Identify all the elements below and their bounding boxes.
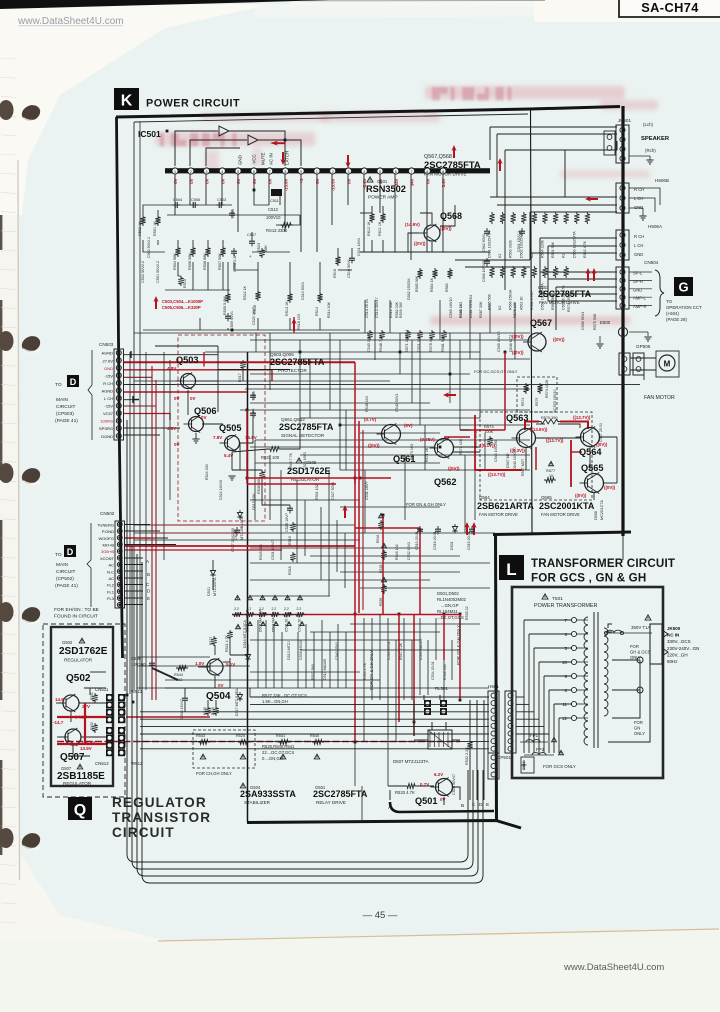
svg-text:R562 4.7K: R562 4.7K [583, 240, 587, 258]
svg-text:R507 56K: R507 56K [218, 253, 222, 270]
transistor Q561 [382, 425, 401, 444]
svg-text:R551: R551 [90, 692, 94, 700]
svg-text:R508 68K: R508 68K [203, 253, 207, 270]
svg-text:-14.7: -14.7 [53, 720, 64, 725]
resistor R565 [489, 266, 494, 278]
svg-text:330V...GCS: 330V...GCS [667, 639, 691, 644]
svg-text:R572 10K: R572 10K [459, 438, 463, 455]
svg-text:AGND: AGND [101, 388, 113, 393]
wire bottom loop wires [127, 760, 483, 883]
svg-text:2.2: 2.2 [284, 607, 289, 611]
node label regulator 2SD1762E [296, 458, 302, 463]
svg-text:R563 392K: R563 392K [509, 239, 513, 258]
svg-text:N.C: N.C [107, 569, 114, 574]
svg-text:((0.3V)): ((0.3V)) [510, 448, 525, 453]
resistor K2 [564, 212, 569, 224]
wire maroon stubs CN503 [124, 377, 156, 406]
svg-text:D501: D501 [450, 541, 454, 550]
svg-text:9: 9 [564, 674, 567, 679]
svg-text:CN503: CN503 [99, 342, 114, 347]
svg-text:MTZJ9B1ATA: MTZJ9B1ATA [240, 516, 244, 540]
svg-text:MO+B: MO+B [103, 543, 115, 548]
node IC501 pin 18 [440, 168, 446, 174]
svg-text:Q562: Q562 [434, 477, 456, 487]
svg-text:R552: R552 [90, 722, 94, 730]
node tap 6 [571, 631, 576, 636]
svg-text:Q505: Q505 [219, 423, 241, 433]
svg-text:R516: R516 [376, 535, 380, 543]
transistor Q504 [207, 659, 223, 675]
capacitor C509 [227, 313, 229, 316]
svg-text:CN504: CN504 [644, 260, 659, 265]
svg-text:R521 4.7K: R521 4.7K [225, 634, 229, 652]
svg-text:(PAGE 41): (PAGE 41) [55, 583, 78, 589]
svg-text:(PAGE 41): (PAGE 41) [55, 418, 78, 424]
svg-text:JK501: JK501 [618, 118, 631, 123]
svg-text:C533 20.01: C533 20.01 [387, 641, 391, 660]
svg-text:MAIN: MAIN [56, 397, 69, 403]
resistor R532 [285, 595, 290, 599]
resistor R5b [92, 723, 97, 733]
svg-text:C531 16V47: C531 16V47 [271, 540, 275, 560]
resistor R541 [278, 740, 290, 745]
node IC501 pin 12 [345, 168, 351, 174]
svg-text:-13.5V: -13.5V [331, 178, 336, 191]
svg-text:D504 MA165: D504 MA165 [419, 639, 423, 660]
svg-text:7.8V: 7.8V [213, 435, 222, 440]
svg-text:7: 7 [269, 170, 271, 174]
svg-text:D567 M?: D567 M? [506, 453, 510, 468]
svg-text:(I-504): (I-504) [666, 311, 679, 316]
svg-text:R575 56K: R575 56K [593, 313, 597, 330]
svg-text:R539: R539 [379, 598, 383, 606]
svg-text:JK500: JK500 [667, 626, 681, 631]
capacitor C507 [251, 238, 253, 241]
svg-text:C527 50V1: C527 50V1 [331, 482, 335, 500]
svg-text:H501: H501 [488, 684, 499, 689]
svg-text:SPSRG: SPSRG [99, 426, 113, 431]
capacitor C562 [486, 228, 488, 231]
resistor R523 [259, 248, 264, 258]
svg-text:C540 25V1: C540 25V1 [335, 642, 339, 660]
resistor K2 [500, 212, 505, 224]
wire motor leads [623, 358, 656, 560]
node junctions [126, 130, 625, 744]
svg-text:C510 20.01: C510 20.01 [415, 531, 419, 550]
svg-text:R505 5.6M: R505 5.6M [223, 296, 227, 315]
svg-text:2SC2785FTA: 2SC2785FTA [279, 422, 334, 432]
svg-text:AMP-L: AMP-L [633, 296, 646, 301]
svg-text:6: 6 [395, 170, 397, 174]
resistor R506 [190, 246, 195, 257]
node section label L [499, 555, 524, 580]
svg-text:CIRCUIT: CIRCUIT [56, 404, 76, 410]
svg-text:R540: R540 [310, 734, 319, 738]
resistor R512b [369, 212, 374, 223]
svg-text:RS13 330K: RS13 330K [266, 228, 288, 233]
svg-text:C535 20.01: C535 20.01 [285, 614, 289, 632]
svg-text:A562 1K: A562 1K [519, 296, 523, 310]
node red note [153, 296, 158, 309]
svg-text:FL1: FL1 [107, 589, 115, 594]
svg-text:0V: 0V [190, 396, 196, 401]
svg-text:R CH: R CH [103, 381, 113, 386]
svg-text:0V: 0V [218, 683, 224, 688]
transistor Q507 [65, 729, 81, 745]
node circle sec2 [637, 687, 643, 693]
svg-text:C505: C505 [231, 209, 235, 218]
svg-text:REGULATOR: REGULATOR [63, 781, 92, 786]
svg-text:AGND: AGND [101, 351, 113, 356]
svg-text:RSN3502: RSN3502 [366, 184, 406, 194]
svg-text:C503: C503 [217, 198, 226, 202]
node binder hole [0, 602, 14, 622]
dashed box ch gh only [193, 730, 255, 768]
capacitor C503 [216, 204, 219, 206]
resistor R518 [290, 552, 295, 562]
resistor small [367, 330, 372, 340]
node label stabilizer [240, 783, 246, 788]
svg-text:0V: 0V [268, 178, 273, 183]
svg-text:R506 56K: R506 56K [188, 253, 192, 270]
svg-text:C525: C525 [252, 391, 256, 400]
capacitor C510b [419, 526, 421, 529]
svg-text:E: E [486, 802, 489, 808]
wire main frame outline [116, 106, 631, 828]
transformer T501 core [593, 612, 595, 748]
svg-text:Q567: Q567 [530, 318, 552, 328]
svg-text:MTZJ20TA: MTZJ20TA [213, 577, 217, 596]
svg-text:R548 330: R548 330 [443, 664, 447, 680]
svg-text:E: E [622, 330, 625, 335]
svg-text:-VCC: -VCC [252, 154, 257, 165]
wire red thick fan drive [444, 415, 588, 487]
svg-text:E500: E500 [600, 320, 611, 325]
resistor small [405, 330, 410, 340]
svg-text:R535 22: R535 22 [465, 606, 469, 620]
svg-text:SP-R: SP-R [633, 279, 643, 284]
svg-text:R504 56K: R504 56K [173, 253, 177, 270]
svg-text:0V: 0V [189, 178, 194, 183]
node red arrow [280, 152, 285, 165]
svg-text:1: 1 [174, 170, 176, 174]
svg-text:((0V)): ((0V)) [512, 334, 524, 339]
resistor R527 [211, 636, 216, 646]
node red arrow [291, 318, 296, 331]
svg-text:6: 6 [564, 632, 567, 637]
wire q501 area [388, 695, 484, 805]
svg-text:((13.7V)): ((13.7V)) [488, 472, 506, 477]
svg-text:R570 390: R570 390 [541, 416, 557, 420]
resistor R507 [220, 246, 225, 257]
wire thick bottom bus [390, 802, 494, 812]
wire IC501 top loops [175, 131, 301, 166]
svg-text:((0V)): ((0V)) [368, 443, 380, 448]
capacitor C526 [289, 505, 291, 508]
svg-text:-15V: -15V [105, 373, 114, 378]
transistor Q564 [581, 428, 600, 447]
svg-text:22....DC,GT,GCS: 22....DC,GT,GCS [262, 750, 294, 755]
svg-text:C537 20.01: C537 20.01 [298, 614, 302, 632]
resistor R562 [585, 212, 590, 224]
resistor R583 [447, 268, 452, 279]
resistor A562 [521, 266, 526, 278]
wire dark red pair [152, 366, 363, 700]
capacitor C506 [190, 204, 193, 206]
node IC501 pin 2 [188, 168, 194, 174]
svg-text:GND: GND [238, 155, 243, 165]
svg-text:D513 MTZJ: D513 MTZJ [287, 641, 291, 660]
resistor R515 [335, 255, 340, 266]
svg-text:C542 50V1: C542 50V1 [395, 394, 399, 412]
resistor R533 [273, 595, 278, 599]
svg-text:R551 102: R551 102 [315, 484, 319, 500]
svg-text:RELAY DRIVE: RELAY DRIVE [316, 800, 346, 805]
svg-text:C538 16V47: C538 16V47 [180, 699, 184, 719]
ground [629, 331, 648, 333]
wire h501 feeds [140, 697, 489, 749]
svg-text:GND: GND [634, 252, 643, 257]
svg-text:FOR DC,GCS,GT ONLY: FOR DC,GCS,GT ONLY [474, 369, 518, 374]
svg-text:0V: 0V [346, 178, 351, 183]
svg-text:FOR GN & GH ONLY: FOR GN & GH ONLY [369, 650, 374, 690]
connector JK500 [650, 624, 662, 664]
svg-text:POWER AMP: POWER AMP [368, 195, 398, 201]
node red arrow [585, 268, 590, 281]
resistor R570 [539, 419, 560, 424]
svg-text:R530 560: R530 560 [257, 478, 261, 494]
svg-text:100RG: 100RG [100, 419, 113, 424]
svg-text:R524 330: R524 330 [205, 464, 209, 480]
svg-text:R546 102: R546 102 [395, 544, 399, 560]
svg-text:FOUND IN CIRCUIT: FOUND IN CIRCUIT [54, 614, 98, 620]
node IC501 pin 3 [203, 168, 209, 174]
svg-text:R543: R543 [196, 734, 205, 738]
svg-text:34V: 34V [410, 178, 415, 186]
node binder hole [0, 463, 14, 483]
svg-text:GND: GND [634, 205, 643, 210]
svg-text:Q561: Q561 [393, 454, 415, 464]
svg-text:AC IN: AC IN [667, 633, 679, 638]
svg-text:RL154M11: RL154M11 [437, 609, 458, 614]
node top bar [0, 0, 330, 9]
node circle sec1 [637, 657, 643, 663]
svg-text:MUTE: MUTE [261, 152, 266, 165]
wire IC pin drops [175, 174, 443, 260]
svg-text:2SD1762E: 2SD1762E [59, 646, 108, 657]
wire cluster under IC [143, 188, 360, 330]
wire tap feeds [524, 620, 572, 753]
resistor K2 [500, 266, 505, 278]
wire q503 cluster [124, 346, 300, 590]
svg-text:CIRCUIT: CIRCUIT [56, 569, 76, 575]
capacitor C512 [271, 189, 282, 196]
svg-text:K2: K2 [498, 306, 502, 310]
node red arrow [443, 392, 456, 397]
wire q568 links [360, 205, 530, 260]
svg-text:(PAGE 28): (PAGE 28) [666, 317, 687, 322]
svg-text:C517 26V2200: C517 26V2200 [231, 528, 235, 552]
svg-text:7: 7 [411, 170, 413, 174]
svg-text:REGULATOR: REGULATOR [64, 658, 93, 663]
resistor R529 [213, 706, 218, 716]
svg-text:Q501: Q501 [415, 796, 437, 806]
svg-text:R523: R523 [257, 243, 261, 252]
svg-text:VC57: VC57 [103, 411, 114, 416]
svg-text:R529: R529 [211, 707, 215, 715]
svg-text:K2: K2 [498, 254, 502, 258]
node tap 12 [571, 715, 576, 720]
ground [639, 215, 646, 217]
svg-text:E: E [147, 596, 150, 601]
svg-text:R583: R583 [445, 283, 449, 292]
svg-text:D516 MTZJ13CA: D516 MTZJ13CA [243, 620, 247, 648]
svg-text:R545 56K: R545 56K [259, 543, 263, 560]
svg-text:ONLY: ONLY [634, 731, 645, 736]
svg-text:2: 2 [190, 170, 192, 174]
svg-text:R541: R541 [276, 734, 285, 738]
svg-text:R537 560: R537 560 [311, 664, 315, 680]
diode D501 [454, 524, 456, 527]
node IC501 pin 9 [298, 168, 304, 174]
node red arrow [585, 196, 598, 201]
svg-text:DGND: DGND [101, 434, 113, 439]
dashed protector box [178, 335, 265, 521]
svg-text:350V T1A: 350V T1A [631, 625, 651, 630]
svg-text:R571 1K: R571 1K [425, 447, 429, 462]
svg-text:C509 50V1: C509 50V1 [230, 311, 234, 330]
node IC501 pin 5 [235, 168, 241, 174]
svg-text:Q: Q [74, 802, 86, 819]
svg-text:G: G [678, 280, 688, 295]
node tap 7 [571, 617, 576, 622]
svg-text:100V10: 100V10 [266, 215, 281, 220]
svg-text:C506: C506 [191, 198, 200, 202]
node IC501 pin 10 [314, 168, 320, 174]
resistor R566 [511, 266, 516, 278]
wire inner frame [133, 122, 135, 690]
svg-text:C534 20.01: C534 20.01 [431, 661, 435, 680]
svg-text:AC IN: AC IN [269, 153, 274, 165]
svg-text:L CH: L CH [104, 396, 113, 401]
svg-text:R522 1K: R522 1K [243, 285, 247, 300]
svg-text:CN511: CN511 [95, 687, 109, 692]
svg-text:C561 16V2.2: C561 16V2.2 [517, 231, 521, 252]
diode D531 [212, 568, 214, 571]
resistor R540 [312, 740, 324, 745]
svg-text:C543 10V290: C543 10V290 [494, 440, 498, 462]
node label RSN3502 [367, 177, 373, 182]
svg-text:MAIN: MAIN [56, 562, 69, 568]
resistor R584 [432, 268, 437, 279]
svg-text:4.8V: 4.8V [167, 426, 176, 431]
node binder hole [0, 100, 14, 120]
resistor R501 [155, 215, 160, 226]
svg-text:H506B: H506B [655, 178, 669, 183]
svg-text:2SC2001KTA: 2SC2001KTA [539, 501, 595, 511]
node binder hole [0, 331, 14, 351]
node IC501 pin 15 [393, 168, 399, 174]
wire [158, 929, 719, 941]
capacitor C525 [252, 392, 254, 395]
wire h501 to transformer [516, 697, 549, 734]
transformer box [512, 587, 663, 778]
svg-text:C504: C504 [173, 198, 182, 202]
resistor C563 [564, 266, 569, 278]
svg-text:GH & GCS: GH & GCS [630, 650, 651, 655]
svg-text:2SD1762E: 2SD1762E [287, 466, 331, 476]
svg-text:R584 1K: R584 1K [430, 277, 434, 292]
svg-text:3: 3 [347, 170, 349, 174]
svg-text:STABILIZER: STABILIZER [244, 800, 271, 805]
svg-text:4: 4 [363, 170, 365, 174]
svg-text:C526 16V?: C526 16V? [285, 513, 289, 532]
svg-text:R507 MZ?: R507 MZ? [521, 459, 525, 476]
regulator box [51, 627, 113, 786]
svg-text:GN: GN [634, 726, 640, 731]
svg-text:— 45 —: — 45 — [363, 910, 398, 921]
svg-text:B: B [147, 572, 150, 577]
wire black stubs CN502 with ABCDE [125, 525, 176, 605]
svg-text:G502: G502 [62, 640, 73, 645]
resistor R530 [298, 595, 303, 599]
svg-text:1.5K...GN,GH: 1.5K...GN,GH [262, 699, 288, 704]
wire q563 links [453, 424, 617, 500]
svg-text:((0V)): ((0V)) [575, 493, 587, 498]
svg-text:R574 102K: R574 102K [545, 379, 549, 398]
svg-text:REGULATOR: REGULATOR [112, 795, 207, 810]
svg-text:CIRCUIT: CIRCUIT [112, 825, 175, 840]
transformer T501 secondary [604, 628, 608, 716]
svg-text:D: D [67, 547, 74, 557]
resistor R533 [405, 784, 417, 789]
svg-text:C502 50V2.2: C502 50V2.2 [141, 261, 145, 283]
node tap 9 [571, 673, 576, 678]
svg-text:OPERATION CCT: OPERATION CCT [666, 305, 702, 310]
node IC501 pin 4 [219, 168, 225, 174]
op-amp buffer B [248, 135, 258, 145]
svg-text:1C505 16V10: 1C505 16V10 [553, 389, 557, 412]
svg-text:FOR: FOR [630, 644, 639, 649]
svg-text:0....GN,GH: 0....GN,GH [262, 756, 283, 761]
wire left bus verticals [127, 420, 142, 762]
svg-text:R574: R574 [521, 398, 525, 406]
resistor R516 [255, 290, 260, 301]
svg-text:R576 10K: R576 10K [513, 301, 517, 318]
svg-text:5: 5 [379, 170, 381, 174]
svg-text:((0V)): ((0V)) [414, 241, 426, 246]
svg-text:R579: R579 [535, 398, 539, 406]
resistor R538 [235, 595, 240, 599]
transistor Q565 [585, 474, 604, 493]
node red arrow [464, 522, 469, 535]
svg-text:8: 8 [564, 688, 567, 693]
wire red regulator [57, 703, 106, 744]
ground [192, 438, 199, 440]
svg-text:R514: R514 [315, 307, 319, 316]
node red arrow [345, 155, 350, 168]
svg-text:Q564: Q564 [579, 447, 602, 457]
node SA-CH74 title box [619, 0, 720, 17]
svg-text:D531: D531 [207, 587, 211, 596]
dashed regulator outer [43, 624, 125, 797]
capacitor C568 [486, 258, 488, 261]
svg-text:C565 16V10: C565 16V10 [497, 331, 501, 352]
svg-text:D568: D568 [594, 511, 598, 520]
node IC501 pin 14 [377, 168, 383, 174]
svg-text:R525,R540,R541: R525,R540,R541 [262, 744, 295, 749]
svg-text:12: 12 [562, 716, 568, 721]
